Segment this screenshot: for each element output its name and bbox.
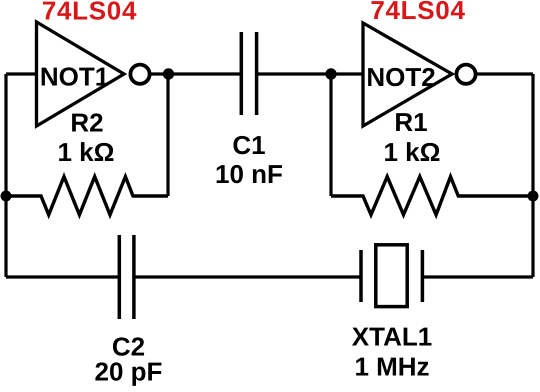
wire: NOT2 output <box>476 72 533 75</box>
svg-text:NOT2: NOT2 <box>366 62 435 92</box>
capacitor C2 right plate <box>132 235 136 319</box>
crystal XTAL1 left electrode <box>359 250 363 302</box>
svg-text:R1: R1 <box>394 107 427 137</box>
svg-text:NOT1: NOT1 <box>40 62 109 92</box>
resistor R1 <box>331 177 533 215</box>
svg-text:1 kΩ: 1 kΩ <box>58 137 115 167</box>
crystal XTAL1 body <box>376 245 407 307</box>
NOT1 inversion bubble <box>130 65 149 84</box>
wire: bottom rail middle <box>134 275 361 278</box>
node junction dot (left rail / R2) <box>1 191 12 202</box>
svg-text:XTAL1: XTAL1 <box>352 322 432 352</box>
wire: right vertical rail <box>531 74 534 277</box>
wire: C1 to NOT2 input <box>257 72 364 75</box>
wire: NOT1 output to C1 <box>150 72 241 75</box>
svg-text:R2: R2 <box>70 108 103 138</box>
wire: left vertical rail <box>4 74 7 277</box>
wire: NOT1 input <box>6 72 38 75</box>
inverter gate NOT1 (74LS04) triangle <box>37 22 125 126</box>
wire: junction down to R1 <box>329 74 332 196</box>
node junction dot (NOT2 input) <box>325 68 336 79</box>
svg-text:1 kΩ: 1 kΩ <box>384 137 441 167</box>
wire: bottom rail right <box>422 275 533 278</box>
wire: bottom rail left <box>6 275 119 278</box>
resistor R2 <box>6 177 168 215</box>
node junction dot (right rail / R1) <box>528 191 539 202</box>
svg-text:20 pF: 20 pF <box>95 357 163 387</box>
NOT2 inversion bubble <box>456 65 475 84</box>
node junction dot (NOT1 output) <box>163 68 174 79</box>
wire: junction down to R2 <box>166 74 169 196</box>
capacitor C1 right plate <box>255 32 259 115</box>
capacitor C1 left plate <box>240 32 244 115</box>
svg-text:C1: C1 <box>232 130 265 160</box>
inverter gate NOT2 (74LS04) triangle <box>363 23 452 126</box>
svg-text:74LS04: 74LS04 <box>42 0 137 26</box>
svg-text:1 MHz: 1 MHz <box>354 352 429 382</box>
crystal XTAL1 right electrode <box>421 250 425 302</box>
svg-text:10 nF: 10 nF <box>215 159 283 189</box>
capacitor C2 left plate <box>118 235 122 319</box>
svg-text:74LS04: 74LS04 <box>370 0 465 25</box>
